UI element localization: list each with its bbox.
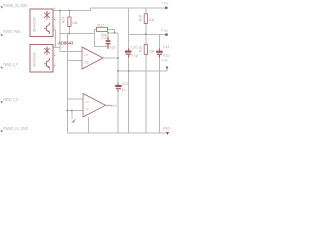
- wire to IN- of op1: [67, 60, 82, 62]
- wire inverting column down from node rail: [66, 34, 68, 134]
- wire R16 column top: [145, 8, 147, 14]
- net label PWMD_PWM: [1, 29, 21, 37]
- wire op2 power pin down: [88, 117, 90, 133]
- OK1 LED with arrows: [44, 11, 50, 20]
- svg-text:P+5V: P+5V: [162, 29, 169, 33]
- svg-text:PWM1: PWM1: [108, 104, 118, 108]
- capacitor C14: [115, 82, 128, 92]
- svg-text:0.1µ: 0.1µ: [163, 53, 170, 57]
- capacitor C13: [156, 45, 169, 57]
- wire node rail y33.5: [60, 33, 95, 35]
- wire C13 column: [158, 35, 160, 51]
- supply symbol P+ mid right rail2: [162, 29, 169, 36]
- net flag arrow near bottom: [71, 118, 76, 123]
- optocoupler OK2: [30, 45, 53, 73]
- svg-text:2B: 2B: [84, 61, 88, 65]
- capacitor C12 (feedback cap): [102, 36, 115, 50]
- capacitor C10: [125, 46, 138, 58]
- wire bottom rail GND: [67, 132, 166, 134]
- OK2 phototransistor: [44, 58, 50, 70]
- wire op2 output: [106, 105, 113, 107]
- ground marker bottom right: [163, 127, 170, 135]
- wires (gray): [53, 8, 167, 133]
- svg-text:C10: C10: [131, 46, 137, 50]
- svg-text:PWMD_X_N: PWMD_X_N: [3, 97, 18, 102]
- wire OK1 emitter down to OK2 collector: [53, 30, 56, 48]
- wire rail y71: [118, 70, 167, 72]
- op-amp IC2B: [83, 94, 106, 118]
- svg-text:P+5V: P+5V: [162, 59, 169, 63]
- wire to IN+ of op2: [67, 98, 83, 100]
- OK1 pin stubs and numbers: [53, 19, 56, 21]
- svg-text:PWMD_X_P: PWMD_X_P: [3, 62, 18, 67]
- wire R15 top: [68, 10, 70, 17]
- svg-text:R16: R16: [139, 15, 143, 21]
- supply symbol P+ top right: [162, 2, 169, 10]
- svg-text:PWMD_IN_VDD: PWMD_IN_VDD: [3, 3, 27, 8]
- net label PWMD_IN_GND: [1, 126, 29, 133]
- svg-text:P+5V: P+5V: [162, 2, 169, 6]
- svg-text:10p: 10p: [110, 45, 116, 49]
- wire supply stub mid right: [166, 68, 168, 71]
- net label PWMD_IN_VDD: [1, 3, 28, 9]
- svg-text:10k: 10k: [149, 50, 155, 54]
- svg-text:C13: C13: [163, 45, 169, 49]
- wire to IN- of op2: [67, 110, 83, 112]
- wire OK2 collector to IN+ of op1: [60, 48, 82, 52]
- resistor R15: [62, 17, 78, 27]
- svg-text:PGND: PGND: [163, 127, 170, 131]
- svg-text:PWMD_IN_GND: PWMD_IN_GND: [3, 126, 28, 131]
- svg-text:PWMD_PWM: PWMD_PWM: [3, 29, 21, 34]
- wire top rail VDD left segment: [53, 8, 166, 11]
- wire R16 bottom down through rail2: [145, 24, 147, 45]
- svg-text:AD8643: AD8643: [58, 41, 74, 46]
- op-amp IC2A: [82, 47, 103, 69]
- resistor R16: [139, 14, 155, 24]
- svg-text:C12: C12: [102, 36, 108, 40]
- OK2 LED with arrows: [44, 47, 50, 56]
- wire R17 right jog to output column: [108, 29, 115, 33]
- wire vdd drop to OK2 collector: [53, 10, 60, 47]
- svg-text:10k: 10k: [149, 18, 155, 22]
- svg-text:10k: 10k: [72, 21, 78, 25]
- svg-text:R15: R15: [62, 17, 66, 23]
- wire output column x118: [117, 33, 119, 85]
- supply symbol P+ right at y67: [162, 59, 169, 69]
- svg-text:SFH6206: SFH6206: [33, 52, 37, 67]
- net label PWMD_X_N: [1, 97, 19, 104]
- wire op1 output: [103, 57, 118, 59]
- wire C10 column: [128, 8, 130, 51]
- OK1 phototransistor: [44, 23, 50, 35]
- wire rail2 y34 right: [129, 34, 167, 36]
- svg-text:C14: C14: [122, 82, 128, 86]
- wire C12 stub up: [107, 33, 109, 37]
- svg-text:1n: 1n: [122, 88, 126, 92]
- OK2 pin stubs and numbers: [53, 56, 56, 66]
- svg-text:SFH6206: SFH6206: [33, 17, 37, 32]
- svg-text:R18: R18: [139, 46, 143, 52]
- net label PWMD_X_P: [1, 62, 19, 69]
- optocoupler OK1: [30, 9, 53, 37]
- wire feedback left drop to R17: [95, 29, 97, 33]
- wire R15 bottom to node rail: [68, 27, 70, 34]
- wire R18 bottom down: [145, 55, 147, 134]
- junction dots: [59, 10, 146, 112]
- resistor R17 (feedback): [97, 24, 108, 37]
- svg-text:2B: 2B: [85, 108, 89, 112]
- svg-text:0.1µ: 0.1µ: [131, 53, 138, 57]
- wire node down to C12 bottom: [95, 34, 108, 47]
- resistor R18: [139, 45, 155, 55]
- wire net flag stub from IN- node: [71, 111, 73, 120]
